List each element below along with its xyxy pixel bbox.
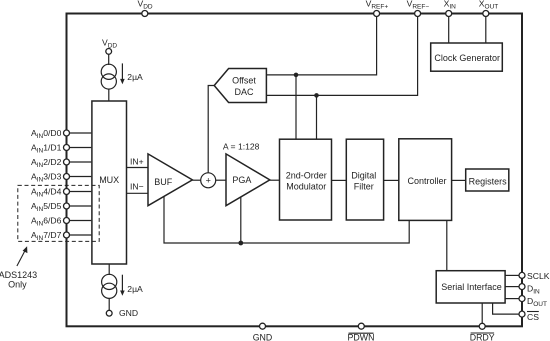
svg-text:+: + bbox=[206, 176, 211, 186]
pin V_DD top bbox=[142, 11, 148, 17]
current source I1 bbox=[101, 64, 116, 89]
PGA amplifier bbox=[226, 154, 270, 206]
wire filter to controller bbox=[384, 179, 399, 181]
svg-text:ADS1243: ADS1243 bbox=[0, 270, 37, 280]
wire controller to registers bbox=[452, 179, 466, 181]
wire DRDY bbox=[481, 303, 483, 325]
wire CS bbox=[493, 303, 520, 314]
pin A_IN3/D3 bbox=[64, 174, 70, 180]
wire lower current source to GND terminal bbox=[108, 298, 110, 310]
svg-text:A = 1:128: A = 1:128 bbox=[223, 142, 260, 152]
wire A_IN5 bbox=[67, 205, 92, 207]
MUX block bbox=[92, 101, 127, 264]
pin A_IN2/D2 bbox=[64, 159, 70, 165]
wire IN+ bbox=[127, 167, 149, 169]
svg-text:DRDY: DRDY bbox=[470, 333, 495, 341]
wire D_IN bbox=[505, 286, 519, 288]
pin A_IN4/D4 bbox=[64, 189, 70, 195]
svg-text:PDWN: PDWN bbox=[348, 333, 375, 341]
digital filter block bbox=[346, 139, 383, 220]
pin GND internal bbox=[106, 310, 112, 316]
summing node bbox=[201, 173, 216, 188]
pin D_OUT bbox=[519, 296, 525, 302]
serial interface block bbox=[436, 271, 505, 303]
pin V_REF- bbox=[415, 11, 421, 17]
wire current source to MUX bbox=[108, 89, 110, 101]
pin SCLK bbox=[519, 272, 525, 278]
wire A_IN6 bbox=[67, 220, 92, 222]
wire A_IN3 bbox=[67, 176, 92, 178]
wire A_IN0 bbox=[67, 132, 92, 134]
pin A_IN1/D1 bbox=[64, 145, 70, 151]
wire Vdd pin to current source bbox=[108, 54, 110, 65]
svg-text:2nd-Order: 2nd-Order bbox=[286, 171, 327, 181]
svg-text:IN−: IN− bbox=[130, 182, 144, 192]
wire X_OUT to clock bbox=[485, 15, 487, 43]
svg-text:Clock Generator: Clock Generator bbox=[434, 53, 500, 63]
wire VREF- to modulator bbox=[316, 95, 318, 139]
node junction control bbox=[238, 241, 243, 246]
wire A_IN1 bbox=[67, 147, 92, 149]
wire V_REF+ vertical bbox=[266, 15, 376, 75]
svg-text:Only: Only bbox=[8, 280, 27, 290]
wire A_IN2 bbox=[67, 161, 92, 163]
chip boundary bbox=[67, 14, 523, 327]
pin D_IN bbox=[519, 284, 525, 290]
svg-text:2µA: 2µA bbox=[127, 72, 143, 82]
wire control to PGA bbox=[240, 196, 242, 244]
wire A_IN7 bbox=[67, 234, 92, 236]
clock generator block bbox=[431, 43, 503, 71]
pin CS bbox=[519, 311, 525, 317]
wire V_REF- vertical bbox=[266, 15, 417, 95]
wire modulator to filter bbox=[332, 179, 347, 181]
svg-text:SCLK: SCLK bbox=[527, 271, 550, 281]
svg-text:Modulator: Modulator bbox=[286, 182, 326, 192]
wire A_IN4 bbox=[67, 191, 92, 193]
pin A_IN5/D5 bbox=[64, 203, 70, 209]
svg-text:Filter: Filter bbox=[354, 182, 374, 192]
pin GND bottom bbox=[260, 323, 266, 329]
pin V_DD internal bbox=[106, 49, 112, 55]
svg-text:BUF: BUF bbox=[154, 177, 173, 187]
wire gain control from controller to BUF/PGA bbox=[164, 195, 409, 243]
pin V_REF+ bbox=[374, 11, 380, 17]
pin X_IN bbox=[446, 11, 452, 17]
svg-text:Offset: Offset bbox=[232, 75, 256, 85]
svg-text:MUX: MUX bbox=[99, 175, 119, 185]
svg-text:GND: GND bbox=[253, 333, 273, 341]
pin A_IN7/D7 bbox=[64, 232, 70, 238]
pin A_IN0/D0 bbox=[64, 130, 70, 136]
wire D_OUT bbox=[505, 298, 519, 300]
pin X_OUT bbox=[483, 11, 489, 17]
2nd-order modulator block bbox=[280, 139, 332, 220]
ADS1243-only dashed box bbox=[18, 185, 99, 241]
svg-text:2µA: 2µA bbox=[127, 284, 143, 294]
svg-text:DAC: DAC bbox=[234, 87, 254, 97]
wire controller to serial interface bbox=[446, 220, 448, 270]
pin A_IN6/D6 bbox=[64, 218, 70, 224]
wire SCLK bbox=[505, 274, 519, 276]
pin PDWN bbox=[358, 323, 364, 329]
node junction VREF+ bbox=[294, 73, 299, 78]
node junction VREF- bbox=[314, 93, 319, 98]
wire VREF+ to modulator bbox=[295, 75, 297, 139]
wire PGA to modulator bbox=[270, 179, 280, 181]
current source I2 bbox=[102, 274, 117, 298]
wire X_IN to clock bbox=[448, 15, 450, 43]
svg-text:PGA: PGA bbox=[232, 175, 251, 185]
svg-text:IN+: IN+ bbox=[130, 157, 144, 167]
wire offset dac to summing node bbox=[208, 86, 215, 174]
controller block bbox=[399, 139, 452, 221]
pin DRDY bbox=[479, 323, 485, 329]
wire IN- bbox=[127, 192, 149, 194]
svg-text:Digital: Digital bbox=[351, 171, 376, 181]
ADS1243 Only callout arrow bbox=[17, 250, 25, 266]
BUF op-amp bbox=[148, 154, 192, 206]
svg-text:GND: GND bbox=[119, 308, 138, 318]
wire MUX to lower current source bbox=[108, 264, 110, 275]
svg-text:Controller: Controller bbox=[407, 176, 446, 186]
svg-text:Serial Interface: Serial Interface bbox=[441, 282, 502, 292]
wire summing node to PGA bbox=[215, 179, 226, 181]
svg-text:CS: CS bbox=[527, 312, 539, 322]
registers block bbox=[466, 169, 509, 191]
wire BUF to summing node bbox=[192, 179, 201, 181]
offset DAC block bbox=[214, 69, 266, 103]
arrow I1 bbox=[121, 63, 123, 80]
svg-text:Registers: Registers bbox=[469, 176, 508, 186]
arrow I2 bbox=[121, 275, 123, 292]
